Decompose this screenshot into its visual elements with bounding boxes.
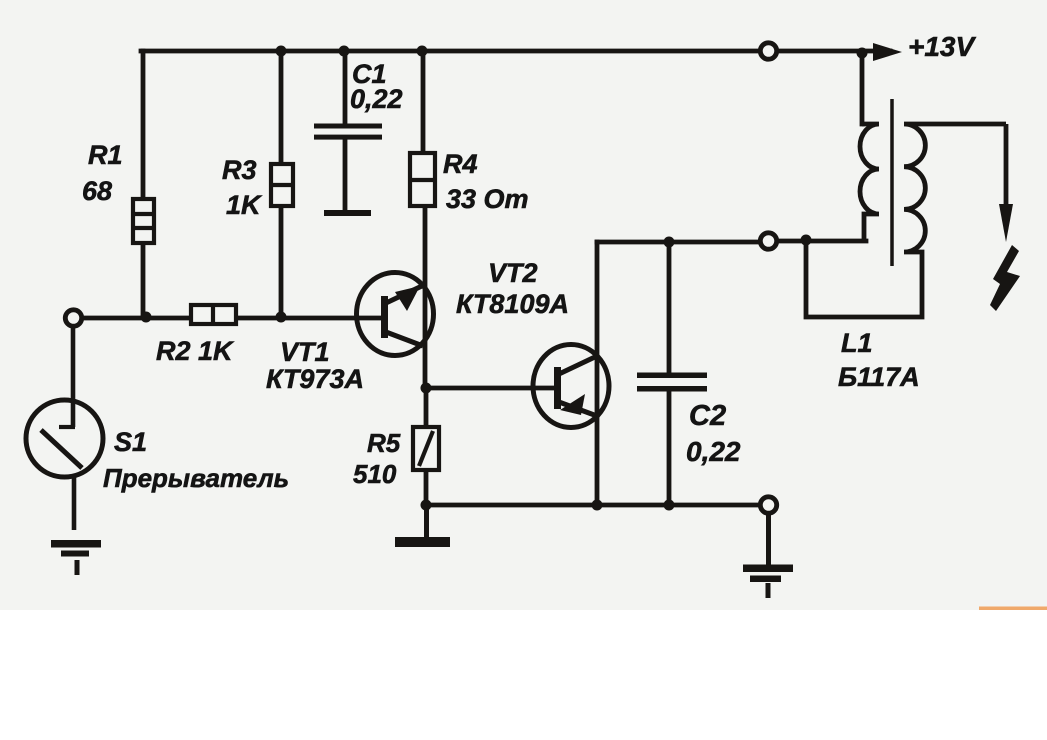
node top R3 xyxy=(276,46,287,57)
svg-text:+13V: +13V xyxy=(908,31,976,62)
wire R4 / VT1 column xyxy=(423,51,425,388)
wire HV output xyxy=(1004,124,1009,207)
svg-text:510: 510 xyxy=(353,459,397,489)
transistor VT2 xyxy=(533,345,609,428)
svg-text:R4: R4 xyxy=(443,149,478,179)
node top C1 xyxy=(339,46,350,57)
terminal mid right xyxy=(760,233,776,249)
wire base rail xyxy=(83,316,384,321)
arrow +13V xyxy=(873,43,902,61)
wire bottom ground rail xyxy=(426,503,759,508)
terminal S1 input xyxy=(65,310,81,326)
svg-text:33 Om: 33 Om xyxy=(446,184,529,214)
svg-text:VT1: VT1 xyxy=(280,337,330,367)
node top R4 xyxy=(417,46,428,57)
svg-text:1K: 1K xyxy=(226,190,263,220)
wire mid rail to terminal xyxy=(597,240,759,245)
svg-text:R1: R1 xyxy=(88,140,123,170)
node bottom R5 xyxy=(421,500,432,511)
resistor R3 xyxy=(271,164,293,206)
ground under S1 xyxy=(51,540,101,575)
svg-text:68: 68 xyxy=(82,176,112,206)
resistor R5 xyxy=(413,427,439,470)
wire C1 lead xyxy=(343,51,348,211)
wire R5 leads xyxy=(424,388,429,505)
terminal bottom right xyxy=(760,497,776,513)
transistor VT1 xyxy=(357,273,434,356)
resistor R4 xyxy=(410,153,435,206)
node bottom C2 xyxy=(664,500,675,511)
node top coil feed xyxy=(857,48,868,59)
spark lightning bolt xyxy=(990,245,1020,311)
orange strip bottom-right xyxy=(979,607,1047,611)
wire C2 leads xyxy=(667,242,672,505)
svg-text:C2: C2 xyxy=(689,400,726,432)
wire R1 branch bottom xyxy=(141,243,146,317)
svg-text:КТ973А: КТ973А xyxy=(266,364,364,394)
capacitor C1 xyxy=(314,124,382,217)
svg-text:L1: L1 xyxy=(841,328,873,358)
svg-text:Прерыватель: Прерыватель xyxy=(103,463,289,493)
wire coil primary feed xyxy=(860,53,865,124)
transformer L1 primary winding xyxy=(860,124,879,240)
transformer L1 secondary winding xyxy=(806,124,1006,317)
svg-text:S1: S1 xyxy=(114,427,147,457)
wire top +13V rail xyxy=(141,49,890,54)
resistor R1 xyxy=(133,199,154,243)
wire terminal to coil xyxy=(778,239,866,244)
node coil secondary return xyxy=(801,235,812,246)
svg-text:0,22: 0,22 xyxy=(686,436,741,467)
node VT1 emitter junction xyxy=(421,383,432,394)
wire VT2 collector column xyxy=(595,242,600,505)
wire R3 branch xyxy=(279,51,284,317)
svg-text:Б117А: Б117А xyxy=(838,362,920,392)
ground under R5 xyxy=(395,505,450,547)
node bottom VT2 xyxy=(592,500,603,511)
resistor R2 xyxy=(191,305,236,324)
node base R3 xyxy=(276,312,287,323)
ground right terminal xyxy=(743,515,793,598)
svg-text:R3: R3 xyxy=(222,155,257,185)
arrow HV output xyxy=(999,204,1013,242)
wire R1 branch top xyxy=(141,51,146,199)
wire VT1 emitter to VT2 base xyxy=(426,386,556,391)
capacitor C2 xyxy=(637,373,707,392)
svg-text:0,22: 0,22 xyxy=(350,84,403,114)
node base R1 xyxy=(141,312,152,323)
transformer L1 core xyxy=(890,99,894,266)
svg-text:VT2: VT2 xyxy=(488,258,538,288)
svg-text:R2 1K: R2 1K xyxy=(156,336,235,366)
svg-text:R5: R5 xyxy=(367,428,401,458)
terminal top right xyxy=(760,43,776,59)
node mid C2 xyxy=(664,237,675,248)
svg-text:КТ8109А: КТ8109А xyxy=(456,289,569,319)
switch S1 xyxy=(26,328,103,530)
